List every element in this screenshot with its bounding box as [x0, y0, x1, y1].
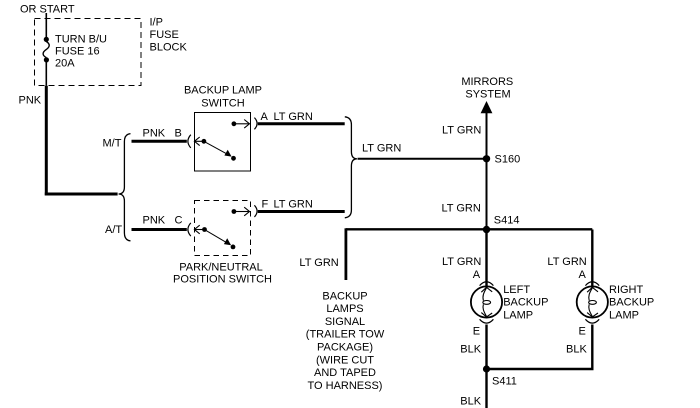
brace splitting M/T and A/T [119, 134, 131, 241]
wire PNK M/T branch [132, 140, 187, 143]
svg-text:SWITCH: SWITCH [201, 98, 244, 110]
svg-text:F: F [262, 199, 269, 211]
svg-text:PACKAGE): PACKAGE) [317, 342, 373, 354]
left backup lamp label [503, 284, 548, 322]
connector at pin B [188, 135, 191, 148]
svg-text:E: E [473, 326, 480, 338]
wire merged LT GRN to S160 [358, 158, 487, 160]
MIRRORS SYSTEM label [461, 76, 513, 101]
svg-text:BLK: BLK [460, 396, 481, 408]
svg-text:BLK: BLK [566, 344, 587, 356]
right backup lamp label [609, 284, 654, 322]
svg-text:TURN B/U: TURN B/U [55, 34, 107, 46]
wire LT GRN up to mirrors system [486, 113, 488, 159]
wire LT GRN from pin F [258, 210, 345, 213]
wire PNK feed right to brace [45, 193, 118, 196]
svg-text:LT GRN: LT GRN [442, 203, 481, 215]
pin F output arrow [236, 207, 250, 216]
svg-text:A: A [579, 269, 587, 281]
wire PNK A/T branch [132, 228, 187, 231]
wire fuse to bottom of fuse block [45, 62, 47, 86]
svg-text:(WIRE CUT: (WIRE CUT [316, 354, 374, 366]
pin A output arrow [236, 120, 250, 129]
svg-text:TO HARNESS): TO HARNESS) [308, 380, 383, 392]
pin C input arrow [194, 225, 204, 234]
svg-text:M/T: M/T [103, 137, 122, 149]
svg-text:B: B [175, 128, 182, 140]
wire S414 down to left backup lamp [485, 230, 487, 288]
svg-text:A: A [473, 269, 481, 281]
connector at right lamp pin E [585, 319, 599, 323]
svg-text:OR START: OR START [20, 4, 75, 16]
svg-text:SYSTEM: SYSTEM [465, 88, 510, 100]
svg-text:A/T: A/T [105, 224, 122, 236]
backup lamp switch box [195, 113, 251, 172]
svg-text:PNK: PNK [143, 128, 166, 140]
svg-text:C: C [175, 215, 183, 227]
svg-text:LT GRN: LT GRN [362, 143, 401, 155]
fuse TURN B/U FUSE 16 20A [43, 37, 49, 63]
svg-text:S411: S411 [492, 376, 517, 388]
switch blade arrow (park/neutral switch) [205, 230, 231, 245]
I/P fuse block label [150, 16, 188, 53]
svg-text:LT GRN: LT GRN [442, 124, 481, 136]
svg-text:LT GRN: LT GRN [299, 257, 338, 269]
svg-text:LAMP: LAMP [503, 310, 533, 322]
wire S160 to S414 [486, 159, 488, 230]
splice S160 [483, 155, 490, 162]
backup lamp switch label [184, 85, 262, 110]
svg-text:LAMP: LAMP [609, 310, 639, 322]
switch common contact (B side) [202, 139, 207, 144]
svg-text:PNK: PNK [19, 95, 42, 107]
switch output contact dot [232, 121, 237, 126]
svg-text:(TRAILER TOW: (TRAILER TOW [306, 329, 385, 341]
svg-text:BACKUP: BACKUP [609, 297, 654, 309]
left backup lamp [471, 286, 502, 317]
svg-text:LT GRN: LT GRN [274, 111, 313, 123]
svg-text:20A: 20A [55, 58, 75, 70]
wire PNK feed down [45, 86, 48, 196]
svg-text:RIGHT: RIGHT [609, 284, 644, 296]
switch blade arrow (backup lamp switch) [205, 142, 232, 157]
wire S414 horizontal bus [346, 228, 592, 230]
svg-text:A: A [261, 111, 269, 123]
park/neutral position switch label [173, 262, 272, 286]
wire S414 down to right backup lamp [591, 230, 593, 288]
connector at pin A [254, 118, 257, 130]
connector at left lamp pin E [480, 319, 494, 323]
backup lamps signal note [306, 290, 385, 392]
svg-text:LT GRN: LT GRN [274, 199, 313, 211]
svg-text:MIRRORS: MIRRORS [461, 76, 513, 88]
svg-text:SIGNAL: SIGNAL [325, 316, 365, 328]
connector at left lamp pin A [480, 282, 494, 286]
connector at pin C [188, 223, 191, 236]
wire BLK below S411 [485, 369, 487, 408]
svg-text:LEFT: LEFT [503, 284, 530, 296]
wire right lamp to S411 [487, 368, 594, 370]
wire from OR START into fuse [45, 13, 47, 39]
connector at pin F [254, 205, 257, 217]
svg-text:PNK: PNK [143, 215, 166, 227]
svg-text:BACKUP: BACKUP [503, 297, 548, 309]
wire BLK right lamp down [591, 325, 593, 370]
right backup lamp [577, 286, 608, 317]
I/P fuse block (dashed box) [35, 19, 142, 86]
switch common contact (C side) [202, 227, 207, 232]
svg-text:E: E [579, 326, 586, 338]
svg-text:BLOCK: BLOCK [150, 42, 188, 54]
svg-text:LT GRN: LT GRN [547, 256, 586, 268]
splice S411 [483, 365, 490, 372]
wire stub to trailer tow backup lamps signal [344, 228, 347, 280]
svg-text:S160: S160 [495, 154, 521, 166]
svg-text:LAMPS: LAMPS [326, 303, 363, 315]
fuse value label [55, 34, 107, 70]
svg-text:S414: S414 [494, 215, 520, 227]
arrow to mirrors system [481, 101, 493, 113]
svg-text:BACKUP: BACKUP [322, 290, 367, 302]
svg-text:I/P: I/P [150, 16, 163, 28]
svg-text:PARK/NEUTRAL: PARK/NEUTRAL [179, 262, 263, 274]
svg-text:FUSE: FUSE [150, 29, 179, 41]
wire BLK left lamp to S411 [485, 325, 487, 370]
park/neutral position switch box (dashed) [195, 201, 251, 256]
svg-text:BACKUP LAMP: BACKUP LAMP [184, 85, 262, 97]
pin B input arrow [194, 137, 204, 146]
brace merging A and F wires [345, 117, 357, 218]
svg-text:LT GRN: LT GRN [442, 256, 481, 268]
connector at right lamp pin A [585, 282, 599, 286]
svg-text:AND TAPED: AND TAPED [314, 367, 376, 379]
wire LT GRN from pin A [258, 122, 345, 125]
switch thrown contact dot [231, 156, 236, 161]
splice S414 [483, 226, 490, 233]
switch thrown contact dot (park/neutral) [231, 245, 236, 250]
svg-text:BLK: BLK [460, 344, 481, 356]
switch output contact dot (park/neutral) [232, 209, 237, 214]
svg-text:FUSE 16: FUSE 16 [55, 46, 100, 58]
svg-text:POSITION SWITCH: POSITION SWITCH [173, 274, 272, 286]
